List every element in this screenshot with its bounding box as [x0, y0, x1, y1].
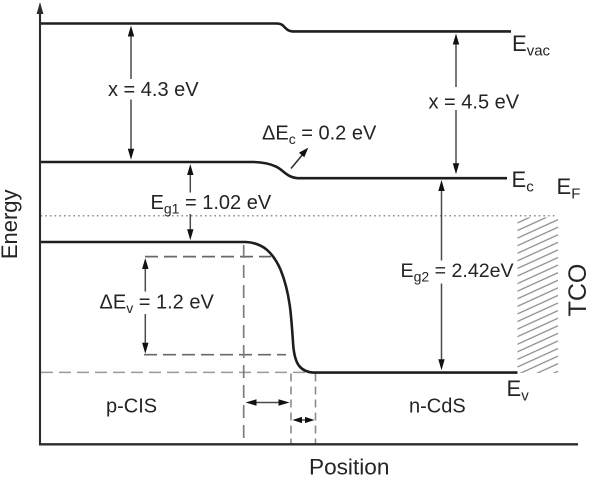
- svg-text:ΔEc = 0.2 eV: ΔEc = 0.2 eV: [262, 123, 377, 148]
- y-axis: [37, 2, 44, 445]
- chi=4.5 label: [426, 87, 520, 113]
- Eg2 double arrow: [438, 180, 444, 370]
- E_c band line: [41, 162, 508, 178]
- dashed box bottom (delta-Ev lower reference): [144, 354, 286, 356]
- x-axis: [39, 443, 578, 445]
- svg-text:p-CIS: p-CIS: [106, 396, 157, 418]
- horizontal double arrow (depletion width W1): [246, 399, 290, 405]
- svg-text:ΔEv = 1.2 eV: ΔEv = 1.2 eV: [100, 292, 215, 317]
- delta-Ev label: [98, 292, 215, 317]
- dashed box top (delta-Ev upper reference): [145, 256, 271, 258]
- svg-text:x = 4.5 eV: x = 4.5 eV: [429, 91, 520, 113]
- Eg2 label: [399, 260, 517, 285]
- svg-text:Position: Position: [309, 454, 389, 477]
- chi=4.3 double arrow: [128, 26, 134, 160]
- delta-Ev double arrow: [142, 258, 148, 354]
- E_vac band line: [41, 24, 512, 32]
- vertical dashed junction line: [243, 245, 245, 444]
- TCO hatched region: [518, 218, 559, 374]
- svg-text:TCO: TCO: [564, 264, 590, 317]
- svg-text:x = 4.3 eV: x = 4.3 eV: [108, 79, 199, 101]
- Eg1 label: [149, 192, 272, 217]
- delta-Ec pointer arrow: [291, 148, 308, 169]
- vertical dashed line (CdS edge): [315, 374, 317, 444]
- Eg1 double arrow: [187, 164, 193, 240]
- chi=4.5 double arrow: [453, 34, 459, 175]
- E_v band line: [41, 242, 518, 373]
- horizontal double arrow (depletion width W2): [293, 417, 315, 423]
- svg-text:n-CdS: n-CdS: [409, 396, 466, 418]
- dashed E_v right-level extension line: [41, 371, 311, 373]
- vertical dashed line (depletion edge): [290, 374, 292, 444]
- svg-text:Energy: Energy: [0, 189, 22, 259]
- chi=4.3 label: [106, 79, 199, 101]
- E_F dotted line: [41, 215, 558, 217]
